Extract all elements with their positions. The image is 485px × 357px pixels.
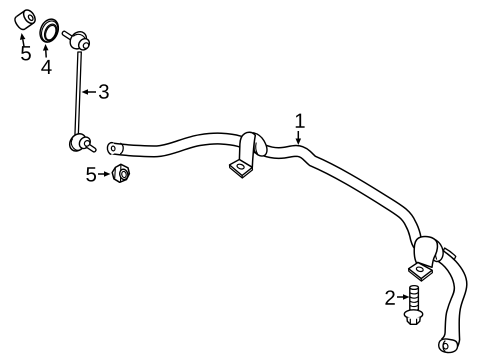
- bar bottom end eye: [439, 339, 458, 353]
- label 5 middle: [86, 167, 110, 181]
- bracket 2 clamp strap: [414, 237, 437, 268]
- part 4 ring washer: [37, 16, 62, 45]
- bracket 1 bushing (in front of bar, behind strap): [254, 133, 267, 156]
- label 2: [385, 290, 409, 304]
- part 5 cylinder nut (top left): [13, 8, 38, 31]
- label 5 top: [20, 33, 31, 61]
- label 3: [82, 84, 109, 99]
- bar left end eye: [106, 142, 117, 155]
- link 3 bottom ball socket boss: [77, 135, 92, 151]
- nut 5 (middle): [112, 164, 129, 182]
- bracket 2 flange: [409, 263, 433, 282]
- clamp tab of bracket 2 (behind bar): [443, 248, 456, 260]
- stabilizer bar 1 main run (outline): [110, 138, 427, 250]
- bracket 1 clamp strap: [239, 132, 255, 167]
- bracket 2 bushing (in front of bar, behind strap): [432, 239, 443, 262]
- bar left end cap arc: [120, 143, 123, 154]
- link 3 top ball socket flange: [67, 28, 90, 52]
- label 1: [296, 114, 305, 145]
- bolt 2: [404, 286, 422, 325]
- link 3 bottom stud: [83, 140, 96, 152]
- stabilizer bar 1 lower leg (closed outline): [439, 249, 467, 348]
- bracket 1 flange: [230, 160, 253, 179]
- link 3 top ball socket boss: [76, 37, 91, 52]
- stabilizer bar 1 main run (white fill): [110, 138, 427, 250]
- link 3 bottom ball socket flange: [66, 131, 89, 155]
- link 3 rod: [75, 52, 81, 136]
- label 4: [41, 44, 51, 74]
- link 3 top stud: [62, 31, 74, 40]
